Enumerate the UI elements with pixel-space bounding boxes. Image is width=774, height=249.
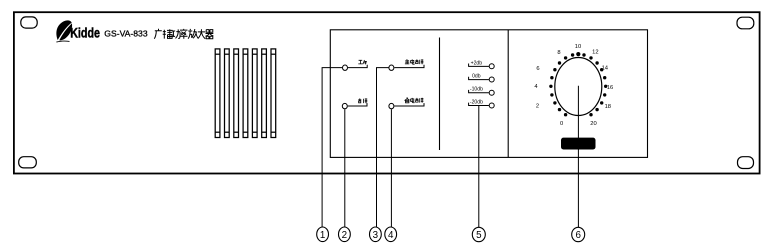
vent slot 4	[243, 49, 248, 138]
svg-text:1: 1	[320, 230, 325, 241]
svg-text:-10db: -10db	[470, 87, 483, 93]
level underline -20db	[469, 103, 489, 106]
knob black label plate	[561, 138, 596, 150]
svg-text:18: 18	[605, 104, 611, 110]
mounting hole top-left	[21, 17, 37, 28]
svg-text:0db: 0db	[472, 74, 481, 80]
leader line 2	[344, 109, 346, 227]
svg-text:8: 8	[557, 50, 560, 56]
callout 4	[385, 227, 397, 242]
level underline -10db	[469, 90, 489, 93]
level underline 0db	[469, 77, 489, 80]
svg-text:20: 20	[590, 121, 596, 127]
vent slot 1	[215, 49, 220, 138]
大	[198, 29, 206, 39]
leader line 4	[390, 109, 392, 227]
svg-text:2: 2	[342, 230, 347, 241]
播	[163, 29, 173, 39]
leader line 3	[377, 68, 389, 227]
level underline +2db	[469, 64, 489, 67]
器	[206, 30, 214, 39]
vent slot 6	[262, 49, 267, 138]
level lamp +2db	[489, 64, 494, 69]
leader line 1	[322, 68, 342, 227]
knob dial ticks	[549, 52, 607, 116]
svg-text:0: 0	[560, 121, 563, 127]
svg-text:Kidde: Kidde	[70, 26, 100, 42]
lamp 工作 pointer line	[348, 65, 367, 68]
svg-text:6: 6	[575, 230, 581, 241]
mounting hole bottom-right	[738, 157, 754, 169]
放	[188, 29, 198, 39]
label 故障	[358, 98, 367, 103]
广	[154, 29, 162, 39]
label 备电故障	[405, 98, 424, 103]
svg-text:3: 3	[373, 230, 379, 241]
svg-text:6: 6	[536, 66, 539, 72]
lamp 故障 circle	[342, 103, 347, 108]
label 主电故障	[405, 59, 424, 64]
vent slot 7	[271, 49, 276, 138]
vent slot 2	[225, 49, 230, 138]
leader line 5	[478, 106, 480, 227]
label 工作	[358, 60, 367, 64]
lamp 故障 pointer line	[348, 103, 367, 106]
callout 5	[472, 227, 485, 241]
svg-text:10: 10	[575, 44, 581, 50]
control box	[330, 30, 647, 158]
leader line 6	[577, 86, 579, 227]
svg-text:4: 4	[534, 84, 538, 90]
vent slot 3	[234, 49, 239, 138]
mounting hole top-right	[737, 17, 754, 29]
Kidde logo leaf	[56, 20, 72, 42]
svg-text:4: 4	[388, 230, 394, 241]
lamp 主电故障 pointer line	[394, 65, 424, 68]
svg-text:5: 5	[476, 230, 482, 241]
lamp 备电故障 pointer line	[394, 103, 424, 106]
svg-text:GS-VA-833: GS-VA-833	[104, 29, 148, 39]
lamp 备电故障 circle	[389, 103, 394, 108]
率	[180, 29, 188, 39]
功	[172, 29, 181, 38]
level lamp 0db	[489, 77, 494, 82]
vent slot 5	[252, 49, 257, 138]
knob body	[555, 58, 602, 116]
svg-text:-20db: -20db	[470, 100, 483, 106]
lamp 工作 circle	[343, 65, 348, 70]
svg-text:+2db: +2db	[471, 60, 483, 66]
callout 6	[572, 227, 585, 241]
title chinese 广播功率放大器 (drawn strokes)	[154, 29, 213, 39]
knob scale numbers	[534, 44, 613, 127]
divider line 1	[439, 38, 441, 151]
mounting hole bottom-left	[19, 157, 37, 168]
divider line 2	[507, 30, 509, 158]
callout 3	[370, 227, 382, 242]
svg-text:14: 14	[602, 66, 609, 72]
level lamp -10db	[489, 90, 494, 95]
callout 1	[317, 227, 329, 242]
svg-text:2: 2	[536, 104, 539, 110]
panel outline	[14, 12, 760, 173]
level lamp -20db	[489, 103, 494, 108]
callout 2	[339, 227, 351, 242]
svg-text:12: 12	[592, 50, 598, 56]
lamp 主电故障 circle	[389, 65, 394, 70]
svg-text:16: 16	[607, 85, 613, 91]
